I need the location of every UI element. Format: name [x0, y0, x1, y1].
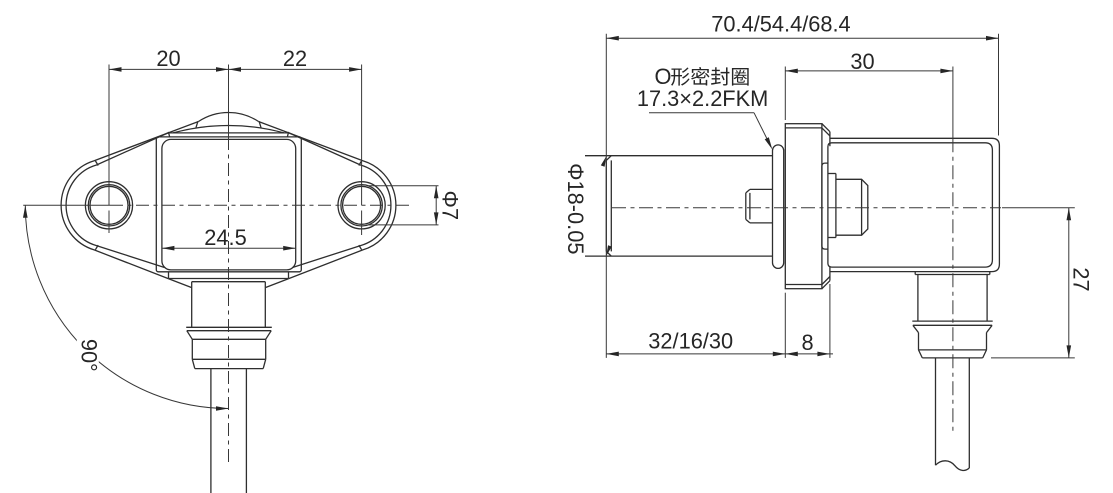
left wing tick upper — [95, 161, 98, 166]
right mounting hole bore circle — [343, 186, 381, 224]
dome edge tick left — [196, 121, 198, 127]
front transition trapezoid left slant — [168, 279, 191, 288]
svg-text:Φ18-0.05: Φ18-0.05 — [563, 163, 588, 254]
side probe chamfer top — [606, 156, 611, 161]
front view top dome chord line — [169, 132, 287, 134]
dimension line 70.4/54.4/68.4 — [606, 36, 998, 41]
dimension text 24.5 — [204, 225, 246, 250]
front cable left edge — [210, 369, 212, 493]
side probe bottom edge — [585, 255, 773, 257]
side body inner edge line — [828, 143, 993, 267]
dimension text 22 — [283, 46, 307, 71]
side connector lip right slant — [987, 325, 993, 332]
svg-text:30: 30 — [850, 49, 874, 74]
front view top dome outer arc — [199, 112, 259, 121]
dome jog tick right — [287, 132, 288, 137]
side nub bottom edge — [750, 222, 773, 224]
dimension line 8 — [785, 352, 833, 357]
front connector barrel right edge — [265, 339, 267, 359]
svg-text:32/16/30: 32/16/30 — [648, 328, 733, 353]
svg-text:27: 27 — [1069, 267, 1094, 291]
dimension line 27 — [1067, 208, 1072, 358]
side connector barrel lower edge — [919, 349, 987, 351]
side flange bottom tab right face — [829, 266, 831, 281]
shoulder end tick left — [168, 272, 170, 278]
dimension 30 right extension — [952, 67, 954, 139]
svg-text:22: 22 — [283, 46, 307, 71]
side flange top tab chamfer — [822, 124, 830, 132]
side nut chamfer line — [861, 179, 863, 235]
svg-text:24.5: 24.5 — [204, 225, 246, 250]
shoulder end tick right — [288, 272, 290, 278]
dimension 27 bottom extension — [991, 357, 1075, 359]
dimension 20/22 extension line right hole — [361, 65, 363, 206]
svg-text:Φ7: Φ7 — [438, 191, 463, 221]
side nut outline — [836, 179, 868, 235]
side step ring right edge — [835, 174, 837, 238]
front connector neck right edge — [264, 282, 266, 328]
left mounting hole bore circle — [90, 186, 128, 224]
side connector shoulder right side — [989, 272, 991, 275]
front connector taper right — [263, 359, 266, 368]
dimension line 30 — [785, 69, 953, 74]
dimension text phi18 — [563, 163, 588, 254]
side connector shoulder left side — [914, 272, 916, 275]
label text O-ring seal (O形密封圈) — [655, 64, 749, 89]
front view body square outer — [156, 137, 301, 272]
dimension 70.4 left extension and phi18 line — [601, 34, 612, 358]
front connector barrel top edge — [192, 338, 265, 340]
dimension 27 top extension — [1002, 207, 1075, 209]
right wing inner outline — [288, 133, 391, 268]
right mounting hole chamfer circle — [341, 185, 382, 226]
side connector shoulder edge — [915, 274, 990, 276]
right wing tick upper — [359, 161, 362, 166]
side nub chamfer bottom — [746, 219, 750, 223]
dimension 70.4 right extension — [998, 34, 1000, 136]
side connector neck right edge — [986, 275, 988, 322]
front connector barrel left edge — [191, 339, 193, 359]
side probe chamfer bottom — [606, 251, 611, 256]
side connector lip lower edge — [913, 324, 992, 326]
side probe end face — [605, 160, 607, 251]
side flange plate outline — [785, 124, 822, 289]
dimension phi7 extension top — [369, 185, 439, 187]
side flange top inner line — [785, 127, 822, 129]
dimension text 30 — [850, 49, 874, 74]
o-ring capsule — [773, 145, 784, 269]
dimension 90 reference leg — [23, 204, 110, 206]
left wing outer outline — [61, 122, 198, 279]
dimension text 90deg — [76, 338, 101, 372]
front connector lip lower edge — [187, 330, 271, 332]
side horizontal centerline — [612, 207, 1001, 209]
front transition trapezoid right slant — [266, 279, 289, 288]
left wing tick lower — [95, 245, 98, 250]
dimension line 24.5 — [162, 246, 296, 251]
side step ring top edge — [828, 173, 836, 175]
side connector barrel right edge — [986, 333, 988, 350]
side nub chamfer top — [746, 189, 750, 193]
side flange bottom tab chamfer inner — [822, 277, 830, 285]
side connector taper left — [919, 350, 923, 358]
dimension text 70.4/54.4/68.4 — [711, 11, 850, 36]
svg-text:70.4/54.4/68.4: 70.4/54.4/68.4 — [711, 11, 850, 36]
front connector bottom edge — [195, 368, 263, 370]
front connector barrel lower edge — [192, 358, 265, 360]
dimension 8 right extension — [829, 284, 831, 358]
svg-text:17.3×2.2FKM: 17.3×2.2FKM — [637, 86, 768, 111]
dimension text 32/16/30 — [648, 328, 733, 353]
front view body square inner — [162, 139, 296, 270]
side flange top tab chamfer inner — [822, 128, 830, 136]
side boss between flange and body — [822, 163, 828, 249]
right wing outer outline — [259, 122, 396, 279]
side flange bottom tab chamfer — [822, 281, 830, 289]
side cable break curve — [936, 461, 970, 471]
front transition shoulder edge — [169, 278, 289, 280]
left wing inner outline — [66, 133, 169, 268]
side nub chamfer edge line — [749, 193, 751, 220]
label text 17.3x2.2FKM — [637, 86, 768, 111]
side cable left edge — [935, 358, 937, 465]
front transition inner edge — [192, 281, 266, 283]
side connector taper right — [983, 350, 987, 358]
dome jog tick left — [168, 132, 169, 137]
side probe top edge — [585, 155, 773, 157]
right mounting hole outer circle — [338, 182, 385, 229]
side step ring bottom edge — [828, 237, 836, 239]
dimension 90 arc — [23, 205, 229, 410]
front connector lip top edge — [186, 326, 272, 328]
dimension line 32/16/30 — [606, 352, 785, 357]
svg-text:90°: 90° — [76, 339, 101, 372]
left hole centerline below — [108, 211, 110, 234]
side flange bottom inner line — [785, 284, 822, 286]
front vertical centerline — [228, 137, 230, 463]
side nub top edge — [750, 188, 773, 190]
front cable right edge — [245, 369, 247, 493]
side flange top tab right face — [829, 132, 831, 147]
side cable right edge — [968, 358, 970, 468]
front connector taper left — [192, 359, 195, 368]
o-ring leader slant — [754, 113, 772, 150]
front view top dome inner arc — [173, 125, 284, 132]
dimension text 20 — [156, 46, 180, 71]
dimension text 8 — [801, 330, 813, 355]
dome edge tick right — [259, 121, 261, 127]
dimension text phi7 — [438, 191, 463, 221]
right wing tick lower — [359, 245, 362, 250]
side body outline — [830, 138, 1000, 271]
side connector bottom edge — [922, 357, 982, 359]
side connector barrel left edge — [918, 333, 920, 350]
side nub end face — [745, 193, 747, 220]
dimension phi7 extension bottom — [369, 224, 439, 226]
left mounting hole outer circle — [85, 182, 132, 229]
dimension 32/16/30 flange extension — [784, 293, 786, 358]
front connector lip right slant — [266, 331, 272, 340]
dimension line 20/22 — [109, 67, 362, 72]
front connector neck left edge — [191, 282, 193, 328]
dimension 30 left extension — [784, 67, 786, 121]
side connector lip top edge — [912, 320, 992, 322]
dimension line phi7 — [434, 186, 439, 225]
svg-text:8: 8 — [801, 330, 813, 355]
dimension 20/22 extension line left hole — [108, 65, 110, 206]
side vertical centerline connector — [952, 138, 954, 433]
o-ring leader underline — [649, 112, 754, 114]
dimension 20/22 extension line center — [228, 65, 230, 137]
svg-text:20: 20 — [156, 46, 180, 71]
side connector lip left slant — [913, 325, 919, 332]
dimension text 27 — [1069, 267, 1094, 291]
front horizontal centerline — [110, 204, 412, 206]
side connector neck left edge — [917, 275, 919, 322]
side probe chamfer edge line — [610, 160, 612, 251]
right hole centerline below — [361, 211, 363, 236]
left mounting hole chamfer circle — [88, 185, 129, 226]
front connector lip left slant — [187, 331, 193, 340]
